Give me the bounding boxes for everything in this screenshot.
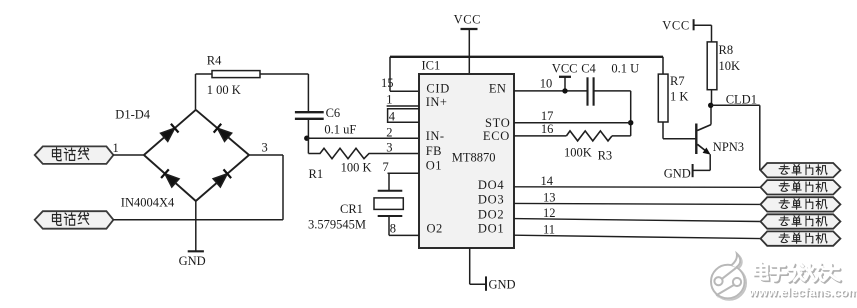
svg-text:FB: FB [426,144,442,158]
svg-text:R4: R4 [207,54,222,68]
svg-text:8: 8 [390,222,396,236]
svg-text:0.1 U: 0.1 U [611,61,639,75]
connector P2 phone line bottom [35,211,114,229]
node CLD1 [708,103,713,108]
connector out 3 [761,197,841,211]
svg-text:CID: CID [426,82,450,96]
pin 8 stub [389,234,419,236]
svg-text:R7: R7 [670,74,685,88]
svg-text:14: 14 [541,174,554,188]
VCC rail top [390,56,663,58]
resistor R8 [711,25,713,42]
capacitor C6 [295,111,324,113]
crystal CR1 [388,173,390,191]
wire C6 to junction [307,119,309,138]
svg-text:16: 16 [541,122,554,136]
svg-text:C4: C4 [581,61,596,75]
resistor R3 on pin 16 row [514,135,566,137]
diode D3 lower-left [161,169,179,187]
connector out 4 [761,214,841,228]
wire R8 to CLD1 [711,90,713,106]
svg-text:3.579545M: 3.579545M [308,218,366,232]
svg-text:GND: GND [489,278,516,292]
svg-text:1: 1 [386,93,392,107]
transistor Q NPN3 [695,124,697,155]
svg-text:R1: R1 [309,167,324,181]
svg-text:10K: 10K [719,59,741,73]
svg-text:VCC: VCC [662,19,690,33]
svg-text:VCC: VCC [552,61,578,75]
ground bridge [188,250,204,252]
wire junction to pin 2 [307,137,419,139]
svg-text:DO2: DO2 [478,207,504,221]
IC inside labels [426,82,511,236]
ground IC bottom [469,248,471,284]
wire DO1 [514,235,761,238]
diode D4 lower-right [213,169,231,187]
pin 1 stub [387,105,419,107]
wire bridge top to R4 [195,74,197,110]
op IC1 MT8870 body [419,74,514,248]
wire bridge bottom stem [195,201,197,251]
svg-text:11: 11 [543,223,555,237]
diode D1 upper-left [160,124,178,142]
svg-text:1 00 K: 1 00 K [207,83,241,97]
junction node IN- [304,136,309,141]
wire pin 10 EN row [514,90,588,92]
watermark logo and text [711,254,857,301]
svg-text:R8: R8 [719,43,734,57]
wire pin 17 STO row [514,122,631,124]
svg-text:O1: O1 [426,158,442,172]
svg-text:R3: R3 [598,149,613,163]
svg-text:3: 3 [262,141,268,155]
svg-text:IN-: IN- [426,129,445,143]
svg-text:12: 12 [543,206,556,220]
svg-text:IC1: IC1 [422,59,441,73]
svg-text:7: 7 [383,160,389,174]
svg-text:2: 2 [386,126,392,140]
wire DO3 [514,203,761,204]
wire CLD1 to connector [711,104,760,106]
svg-text:O2: O2 [427,222,443,236]
svg-text:1 K: 1 K [670,90,688,104]
bridge D1-D4 outline [144,110,249,201]
svg-text:DO3: DO3 [478,192,504,206]
svg-text:ECO: ECO [483,129,510,143]
resistor R1 [308,148,419,158]
watermark brand text [755,263,841,282]
wire DO4 [514,186,761,189]
connector out 2 [761,180,841,194]
svg-text:100 K: 100 K [341,161,372,175]
diode D2 upper-right [214,124,232,142]
svg-text:EN: EN [489,82,506,96]
svg-text:CR1: CR1 [340,202,363,216]
pin 7 stub [388,172,420,174]
svg-text:MT8870: MT8870 [452,150,496,164]
capacitor C4 [586,77,588,105]
svg-text:13: 13 [543,191,556,205]
connector P1 phone line top [35,146,114,164]
svg-text:IN4004X4: IN4004X4 [121,196,175,210]
svg-text:15: 15 [381,76,394,90]
svg-text:GND: GND [664,167,691,181]
wire rail to R7 [662,57,664,74]
wire R4 to C6 [260,73,308,75]
VCC tap at pin 10 [559,76,571,78]
svg-text:3: 3 [386,141,392,155]
wire DO2 [514,219,761,222]
connector out 1 [761,163,841,177]
wire P2 to node 3 loop [113,219,283,221]
svg-text:DO1: DO1 [478,222,504,236]
connector out 5 [761,231,841,245]
resistor R7 [658,74,668,122]
svg-text:DO4: DO4 [478,178,504,192]
wire P1 to bridge left [113,154,143,156]
svg-text:www.elecfans.com: www.elecfans.com [748,285,857,299]
wire node3 loop vertical [282,155,284,220]
svg-text:4: 4 [389,110,396,124]
svg-text:NPN3: NPN3 [713,140,744,154]
svg-text:GND: GND [179,254,206,268]
svg-text:100K: 100K [564,146,592,160]
ground transistor [692,164,694,177]
wire bridge right to loop [249,154,283,156]
svg-text:0.1 uF: 0.1 uF [324,123,356,137]
wire C4 right [594,90,631,92]
wire junction down to R1 [307,138,309,153]
svg-text:CLD1: CLD1 [726,93,757,107]
svg-text:10: 10 [540,77,553,91]
svg-text:1: 1 [113,141,119,155]
wire rail to pin 15 [389,57,391,91]
svg-text:17: 17 [541,109,554,123]
svg-text:VCC: VCC [454,13,482,27]
wire R7 to base [662,122,664,139]
resistor R4 [212,71,260,78]
svg-text:C6: C6 [326,106,341,120]
svg-text:D1-D4: D1-D4 [115,108,150,122]
pin 4 loop [388,109,419,122]
svg-text:IN+: IN+ [426,95,448,109]
